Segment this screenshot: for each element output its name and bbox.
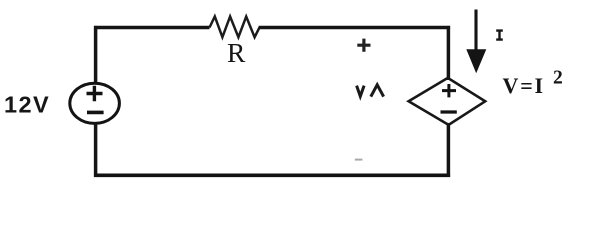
resistor R <box>210 17 260 38</box>
wire: right vertical upper (top corner to dependent source) <box>447 26 451 80</box>
dependent source U1 (diamond, V = I^2) <box>409 78 486 125</box>
current arrow I (pointing down) <box>466 10 486 74</box>
wire: top, left segment (node between source + and resistor) <box>94 26 210 30</box>
wire: right vertical lower (dependent source to bottom wire) <box>447 123 451 177</box>
wire: top, right segment (resistor to right corner) <box>259 26 450 30</box>
svg-text:R: R <box>227 37 246 68</box>
voltage source V1 (12V independent source) <box>70 83 120 123</box>
wire: left vertical upper (top corner to source) <box>94 26 98 84</box>
label I (current) <box>496 31 503 40</box>
svg-text:V=I: V=I <box>503 73 545 98</box>
label VA (node voltage name) <box>357 85 384 97</box>
wire: left vertical lower (source to bottom wire) <box>94 123 98 177</box>
label + (node voltage polarity, top) <box>357 39 370 52</box>
label - (node voltage polarity, bottom, faint) <box>355 159 363 161</box>
wire: bottom (source - to dependent source -) <box>94 174 450 178</box>
svg-text:12V: 12V <box>4 91 50 117</box>
svg-text:2: 2 <box>553 67 563 88</box>
